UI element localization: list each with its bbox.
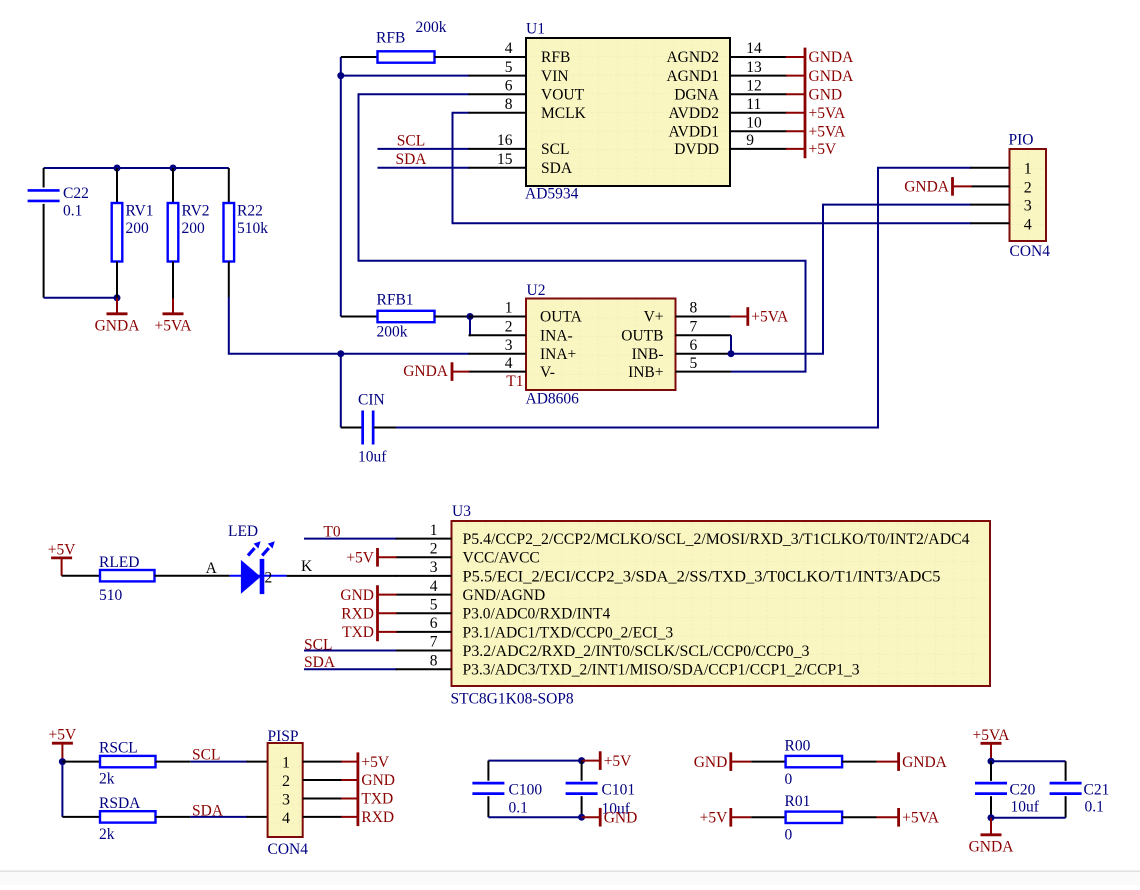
svg-text:VIN: VIN <box>541 68 569 85</box>
power port +5VA below RV2 <box>155 299 193 335</box>
connector PIO CON4 body <box>1010 149 1047 241</box>
svg-text:PISP: PISP <box>268 728 299 745</box>
svg-text:SCL: SCL <box>541 141 569 158</box>
wire C100/C101 top rail <box>488 760 581 762</box>
svg-text:+5V: +5V <box>361 754 389 771</box>
svg-text:510k: 510k <box>237 220 268 237</box>
svg-text:0: 0 <box>785 771 793 788</box>
svg-text:3: 3 <box>282 792 290 809</box>
svg-text:5: 5 <box>430 596 438 613</box>
svg-text:U3: U3 <box>452 503 471 520</box>
wire T0 to U3 pin1 <box>304 538 397 540</box>
wire RFB1 junction down to U2 pin2 <box>469 317 470 336</box>
power port +5V at PISP pin 1 <box>341 754 390 771</box>
svg-text:4: 4 <box>282 810 290 827</box>
power bar (PISP right ports) <box>356 752 359 826</box>
junction C101 bottom / GND <box>578 814 585 821</box>
resistor RV2 <box>168 168 179 299</box>
svg-text:GNDA: GNDA <box>403 363 449 380</box>
svg-text:VOUT: VOUT <box>541 86 585 103</box>
power port GND at R00 left <box>694 752 751 771</box>
U1 pin 13 AGND1 <box>666 59 786 85</box>
svg-text:MCLK: MCLK <box>541 105 587 122</box>
power port +5V at RLED <box>48 541 76 575</box>
svg-text:1: 1 <box>505 300 513 317</box>
wire C20/C21 bottom rail <box>991 817 1066 819</box>
svg-text:T1: T1 <box>506 373 523 390</box>
svg-text:5: 5 <box>690 355 698 372</box>
svg-text:AVDD2: AVDD2 <box>668 105 719 122</box>
U2 pin 1 OUTA <box>469 300 583 326</box>
svg-text:GNDA: GNDA <box>969 838 1015 855</box>
svg-text:0.1: 0.1 <box>63 203 82 220</box>
svg-text:3: 3 <box>430 559 438 576</box>
U3 pin 2 VCC <box>396 541 540 567</box>
wire SCL to U3 pin7 <box>304 650 397 652</box>
wire VIN row to U1 pin 5 <box>341 75 470 77</box>
wire SDA to PISP pin4 <box>190 816 267 818</box>
microcontroller U3 STC8G1K08-SOP8 body <box>452 521 991 686</box>
power port +5V at R01 left <box>700 808 752 827</box>
junction +5V / RSCL / RSDA <box>59 758 66 765</box>
svg-text:RV1: RV1 <box>126 203 154 220</box>
svg-text:200k: 200k <box>377 324 408 341</box>
svg-text:DVDD: DVDD <box>674 141 719 158</box>
svg-text:12: 12 <box>746 77 762 94</box>
wire C22 bottom to RV1 bottom <box>44 297 117 299</box>
svg-text:V+: V+ <box>644 309 664 326</box>
svg-text:TXD: TXD <box>361 791 393 808</box>
svg-text:GND: GND <box>361 772 395 789</box>
svg-text:OUTA: OUTA <box>540 309 583 326</box>
U1 pin 6 VOUT <box>469 77 585 103</box>
power port TXD at U3 pin6 <box>342 624 397 641</box>
power port RXD at PISP pin 4 <box>341 809 394 826</box>
svg-text:0: 0 <box>785 827 793 844</box>
wire U2 pin7 to pin6 node <box>730 335 732 354</box>
svg-text:SDA: SDA <box>395 151 427 168</box>
svg-text:RV2: RV2 <box>182 203 210 220</box>
U2 pin 5 INB+ <box>628 355 731 381</box>
svg-text:DGNA: DGNA <box>674 86 720 103</box>
svg-text:5: 5 <box>505 59 513 76</box>
U2 pin 6 INB- <box>632 337 731 363</box>
svg-text:GND: GND <box>340 587 374 604</box>
svg-text:P5.5/ECI_2/ECI/CCP2_3/SDA_2/SS: P5.5/ECI_2/ECI/CCP2_3/SDA_2/SS/TXD_3/T0C… <box>463 568 941 585</box>
svg-text:200: 200 <box>182 220 206 237</box>
junction top rail / RV1 <box>114 165 121 172</box>
svg-text:RXD: RXD <box>341 605 374 622</box>
wire CIN to PIO pin1 <box>396 168 972 428</box>
svg-text:INB+: INB+ <box>628 364 663 381</box>
svg-text:10uf: 10uf <box>1011 799 1040 816</box>
svg-text:SCL: SCL <box>397 132 425 149</box>
svg-text:2k: 2k <box>99 771 115 788</box>
svg-text:10uf: 10uf <box>358 449 387 466</box>
svg-text:+5VA: +5VA <box>155 317 193 334</box>
svg-text:TXD: TXD <box>342 624 374 641</box>
svg-text:R00: R00 <box>785 738 811 755</box>
svg-text:+5V: +5V <box>700 810 728 827</box>
svg-text:GNDA: GNDA <box>809 68 855 85</box>
resistor RFB <box>341 51 526 62</box>
svg-text:R01: R01 <box>785 793 811 810</box>
connector PISP CON4 body <box>268 743 303 837</box>
power port +5V at U1 pin 9 <box>786 141 837 158</box>
power port GNDA at C20 bottom <box>969 818 1015 856</box>
U3 pin 7 P3.2 <box>396 634 810 660</box>
U1 pin 11 AVDD2 <box>668 96 786 122</box>
svg-text:2: 2 <box>1024 179 1032 196</box>
svg-text:7: 7 <box>690 318 698 335</box>
wire VOUT net: U1 pin6 to U2 pin5 INB+ <box>359 94 806 371</box>
U1 pin 5 VIN <box>469 59 569 85</box>
svg-text:+5VA: +5VA <box>973 727 1011 744</box>
PISP pin 4 <box>282 810 342 827</box>
svg-text:4: 4 <box>505 355 513 372</box>
svg-text:GNDA: GNDA <box>809 49 855 66</box>
U1 pin 15 SDA <box>469 151 573 177</box>
junction C20 top <box>988 758 995 765</box>
power port +5V at RSCL <box>49 727 77 762</box>
svg-text:A: A <box>206 560 218 577</box>
svg-text:+5VA: +5VA <box>751 309 789 326</box>
svg-text:INA-: INA- <box>540 327 573 344</box>
junction C101 top / +5V <box>578 757 585 764</box>
PISP pin 3 <box>282 792 342 809</box>
U1 pin 16 SCL <box>469 132 570 158</box>
power port GNDA at U1 pin 13 <box>786 68 854 85</box>
op-amp U1 AD5934 body <box>526 38 730 186</box>
svg-text:U1: U1 <box>526 21 545 38</box>
svg-text:2k: 2k <box>99 826 115 843</box>
capacitor C100 <box>472 761 504 818</box>
power port +5VA at C20 top <box>973 727 1011 761</box>
U1 pin 14 AGND2 <box>666 40 786 66</box>
svg-text:15: 15 <box>497 151 513 168</box>
power port +5V at U3 pin2 <box>346 548 396 567</box>
junction INA+ wire / CIN branch <box>337 350 344 357</box>
svg-text:CON4: CON4 <box>1010 243 1051 260</box>
svg-text:PIO: PIO <box>1009 132 1034 149</box>
svg-text:7: 7 <box>430 634 438 651</box>
power port GND at C101 bottom <box>582 808 638 827</box>
svg-text:P3.3/ADC3/TXD_2/INT1/MISO/SDA/: P3.3/ADC3/TXD_2/INT1/MISO/SDA/CCP1/CCP1_… <box>463 662 860 679</box>
svg-text:LED: LED <box>228 523 258 540</box>
resistor RLED <box>62 570 230 581</box>
svg-text:2: 2 <box>505 318 513 335</box>
power port GND at U1 pin 12 <box>786 86 842 103</box>
svg-text:C101: C101 <box>602 782 636 799</box>
svg-text:P3.1/ADC1/TXD/CCP0_2/ECI_3: P3.1/ADC1/TXD/CCP0_2/ECI_3 <box>463 624 674 641</box>
U1 pin 12 DGNA <box>674 77 787 103</box>
wire C20/C21 top rail <box>991 760 1066 762</box>
power port +5VA at U1 pin 10 <box>786 123 846 140</box>
U3 pin 5 P3.0 <box>396 596 611 622</box>
U2 pin 4 V- <box>469 355 555 381</box>
wire SCL to U1 pin16 <box>378 148 470 150</box>
svg-text:+5V: +5V <box>49 727 77 744</box>
svg-text:510: 510 <box>99 587 123 604</box>
svg-text:R22: R22 <box>237 203 263 220</box>
svg-text:0.1: 0.1 <box>509 800 528 817</box>
wire C100/C101 bottom rail <box>488 816 581 818</box>
junction top rail / RV2 <box>170 165 177 172</box>
svg-text:GND/AGND: GND/AGND <box>463 587 546 604</box>
svg-text:C21: C21 <box>1084 782 1110 799</box>
U1 pin 4 RFB <box>469 40 571 66</box>
sheet border line <box>0 872 1140 885</box>
svg-text:1: 1 <box>282 755 290 772</box>
op-amp U2 AD8606 body <box>526 299 676 391</box>
U2 pin 8 V+ <box>644 300 731 326</box>
wire analog top rail C22/RV1/RV2/R22 <box>44 167 229 169</box>
svg-text:C20: C20 <box>1010 782 1036 799</box>
U3 pin 1 P5.4 <box>396 522 970 548</box>
svg-text:P5.4/CCP2_2/CCP2/MCLKO/SCL_2/M: P5.4/CCP2_2/CCP2/MCLKO/SCL_2/MOSI/RXD_3/… <box>463 531 970 548</box>
PISP pin 1 <box>282 755 342 772</box>
wire U2 pin6 node to PIO pin3 <box>731 205 972 354</box>
svg-text:V-: V- <box>540 364 555 381</box>
junction VIN net <box>337 72 344 79</box>
svg-text:VCC/AVCC: VCC/AVCC <box>463 550 540 567</box>
resistor R01 <box>751 812 876 823</box>
power port GND at U3 pin4 <box>340 585 396 641</box>
svg-text:C100: C100 <box>509 782 543 799</box>
wire SCL to PISP pin1 <box>190 761 267 763</box>
svg-text:8: 8 <box>690 300 698 317</box>
svg-text:2: 2 <box>265 570 273 587</box>
svg-text:4: 4 <box>430 578 438 595</box>
PISP pin 2 <box>282 773 342 790</box>
svg-text:P3.2/ADC2/RXD_2/INT0/SCLK/SCL/: P3.2/ADC2/RXD_2/INT0/SCLK/SCL/CCP0/CCP0_… <box>463 643 810 660</box>
wire RSCL junction down to RSDA <box>61 762 63 817</box>
svg-text:+5VA: +5VA <box>809 123 847 140</box>
U2 pin 2 INA- <box>469 318 573 344</box>
svg-text:9: 9 <box>746 132 754 149</box>
svg-text:RFB: RFB <box>541 49 570 66</box>
svg-text:14: 14 <box>746 40 762 57</box>
svg-text:8: 8 <box>430 652 438 669</box>
capacitor C21 <box>1050 761 1082 818</box>
U2 pin 3 INA+ <box>469 337 577 363</box>
power port +5VA at R01 right <box>877 808 940 827</box>
svg-text:RFB1: RFB1 <box>377 292 414 309</box>
svg-text:GND: GND <box>694 754 728 771</box>
capacitor C22 <box>28 168 60 298</box>
svg-text:RFB: RFB <box>376 30 405 47</box>
power bar (U1 right ports) <box>804 48 807 159</box>
wire R22 bottom to U2 INA+ <box>229 297 470 354</box>
svg-text:OUTB: OUTB <box>621 327 663 344</box>
resistor RFB1 <box>341 311 470 322</box>
svg-text:GNDA: GNDA <box>904 179 950 196</box>
power port GNDA at PIO pin2 <box>904 177 972 196</box>
svg-text:13: 13 <box>746 59 762 76</box>
svg-text:INA+: INA+ <box>540 346 576 363</box>
svg-text:C22: C22 <box>63 185 89 202</box>
svg-text:K: K <box>301 558 313 575</box>
PIO pin 1 <box>971 161 1032 178</box>
svg-text:1: 1 <box>1024 161 1032 178</box>
wire VIN net vertical from RFB junction down to RFB1 <box>340 57 342 317</box>
svg-text:AD8606: AD8606 <box>526 391 580 408</box>
power port TXD at PISP pin 3 <box>341 791 393 808</box>
svg-text:AD5934: AD5934 <box>525 186 579 203</box>
svg-text:RXD: RXD <box>361 809 394 826</box>
svg-text:STC8G1K08-SOP8: STC8G1K08-SOP8 <box>451 691 574 708</box>
svg-text:INB-: INB- <box>632 346 664 363</box>
wire MCLK net: U1 pin8 to PIO pin4 <box>453 113 972 224</box>
junction C20 bottom <box>988 814 995 821</box>
U3 pin 8 P3.3 <box>396 652 860 678</box>
resistor RSDA <box>62 811 190 822</box>
svg-text:4: 4 <box>1024 216 1032 233</box>
PIO pin 4 <box>971 216 1032 233</box>
U2 pin 7 OUTB <box>621 318 731 344</box>
svg-text:RSDA: RSDA <box>99 795 141 812</box>
svg-text:4: 4 <box>505 40 513 57</box>
junction U2 pin6/pin7 <box>728 350 735 357</box>
svg-text:11: 11 <box>746 96 761 113</box>
svg-text:2: 2 <box>282 773 290 790</box>
power port GNDA at U1 pin 14 <box>786 49 854 66</box>
svg-text:AVDD1: AVDD1 <box>668 123 719 140</box>
power port +5VA at U2 pin8 <box>730 307 789 326</box>
svg-text:8: 8 <box>505 96 513 113</box>
U1 pin 8 MCLK <box>469 96 587 122</box>
wire SDA to U1 pin15 <box>378 167 470 169</box>
svg-text:GND: GND <box>809 86 843 103</box>
wire SDA to U3 pin8 <box>304 668 397 670</box>
svg-text:2: 2 <box>430 541 438 558</box>
U3 pin 6 P3.1 <box>396 615 674 641</box>
U3 pin 3 P5.5 <box>396 559 941 585</box>
svg-text:CON4: CON4 <box>268 841 309 858</box>
svg-text:AGND1: AGND1 <box>666 68 719 85</box>
svg-text:10: 10 <box>746 114 762 131</box>
svg-text:RLED: RLED <box>99 554 139 571</box>
svg-text:GNDA: GNDA <box>95 317 141 334</box>
svg-text:AGND2: AGND2 <box>666 49 719 66</box>
capacitor C20 <box>975 761 1007 818</box>
PIO pin 3 <box>971 198 1032 215</box>
svg-text:3: 3 <box>505 337 513 354</box>
svg-text:SDA: SDA <box>541 160 573 177</box>
resistor R00 <box>751 756 876 767</box>
power port +5V at C101 top <box>582 751 633 770</box>
svg-text:0.1: 0.1 <box>1085 799 1104 816</box>
svg-text:200k: 200k <box>416 19 447 36</box>
capacitor C101 <box>566 761 598 818</box>
LED diode symbol <box>230 541 287 594</box>
svg-text:+5V: +5V <box>809 141 837 158</box>
resistor R22 <box>224 168 235 297</box>
resistor RSCL <box>62 756 190 767</box>
junction RV1 bottom / GNDA <box>114 294 121 301</box>
svg-text:+5VA: +5VA <box>902 810 940 827</box>
junction RFB1 / U2 pin1 / pin2 branch <box>467 313 474 320</box>
svg-text:200: 200 <box>126 220 150 237</box>
svg-text:RSCL: RSCL <box>99 740 138 757</box>
svg-text:+5V: +5V <box>346 550 374 567</box>
svg-text:3: 3 <box>1024 198 1032 215</box>
svg-text:GNDA: GNDA <box>902 754 948 771</box>
svg-text:6: 6 <box>505 77 513 94</box>
power port RXD at U3 pin5 <box>341 605 397 622</box>
svg-text:U2: U2 <box>527 282 546 299</box>
power port GNDA below RV1 <box>95 298 141 335</box>
power port GNDA at R00 right <box>877 752 948 771</box>
power port +5VA at U1 pin 11 <box>786 105 846 122</box>
resistor RV1 <box>112 168 123 298</box>
svg-text:+5VA: +5VA <box>809 105 847 122</box>
svg-text:+5V: +5V <box>48 541 76 558</box>
svg-text:+5V: +5V <box>604 753 632 770</box>
svg-text:CIN: CIN <box>358 392 385 409</box>
svg-text:GND: GND <box>604 809 638 826</box>
power port GNDA at U2 pin4 <box>403 362 469 381</box>
U1 pin 9 DVDD <box>674 132 787 158</box>
power port GND at PISP pin 2 <box>341 772 395 789</box>
svg-text:P3.0/ADC0/RXD/INT4: P3.0/ADC0/RXD/INT4 <box>463 606 611 623</box>
U3 pin 4 GND <box>396 578 545 604</box>
capacitor CIN <box>341 354 396 445</box>
svg-text:6: 6 <box>690 337 698 354</box>
U1 pin 10 AVDD1 <box>668 114 786 140</box>
wire LED cathode to U3 pin3 <box>287 575 397 577</box>
PIO pin 2 <box>971 179 1032 196</box>
svg-text:1: 1 <box>430 522 438 539</box>
svg-text:6: 6 <box>430 615 438 632</box>
svg-text:16: 16 <box>497 132 513 149</box>
